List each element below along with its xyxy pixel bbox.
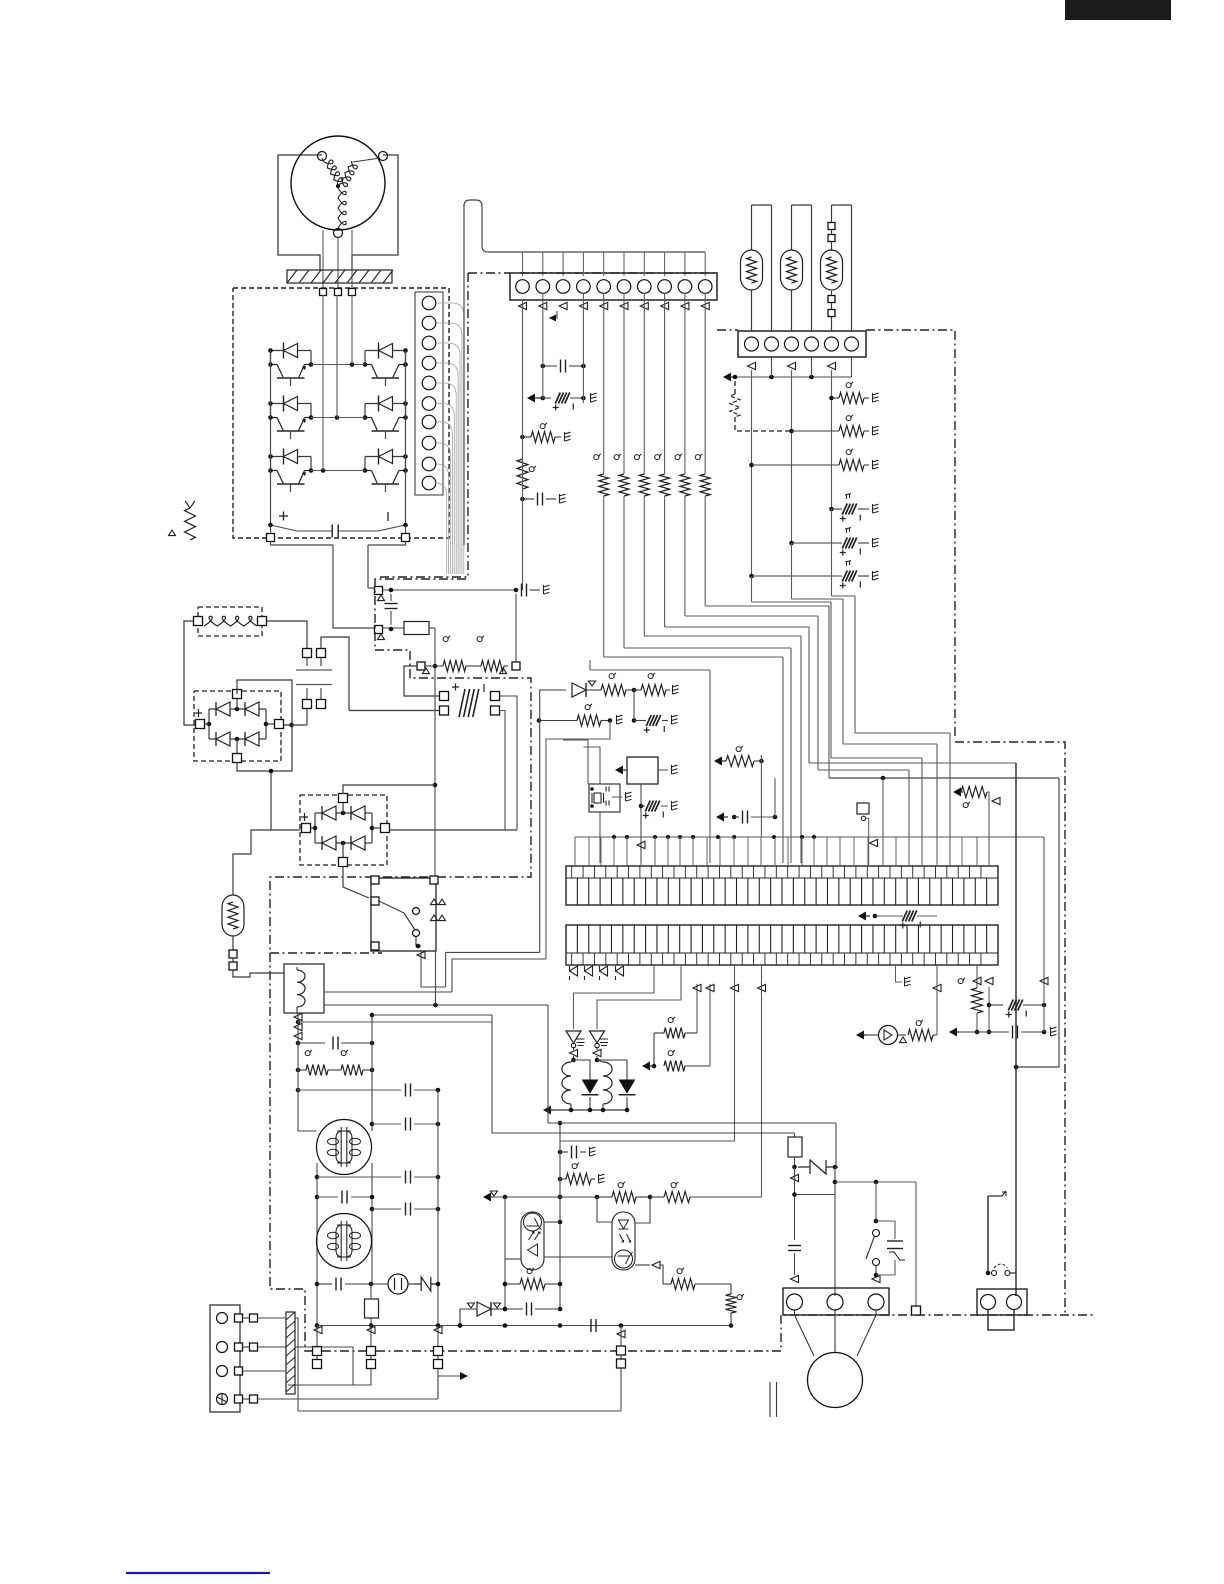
bus link upper bbox=[271, 541, 406, 628]
DC link capacitor C1 bbox=[268, 512, 408, 538]
compressor motor M frame bbox=[278, 155, 398, 270]
transformer T1 bbox=[317, 1120, 372, 1175]
board boundary dash-dot D1 bbox=[380, 273, 716, 577]
caps rail x438 bbox=[437, 1090, 439, 1325]
ecap C51 bbox=[641, 801, 678, 819]
varistor RV1 bbox=[730, 381, 794, 433]
pull resistor R11 bbox=[614, 293, 629, 496]
power relay RY1 bbox=[371, 876, 438, 951]
wire jog C bbox=[752, 576, 923, 863]
resistor R20 bbox=[829, 382, 878, 404]
resistor R55 bbox=[958, 965, 982, 1034]
smoothing capacitor C22 bbox=[440, 684, 500, 718]
crystal feed 1 bbox=[563, 740, 588, 784]
signal wire jog 2 bbox=[604, 496, 783, 863]
gray link x547 bbox=[546, 721, 610, 960]
capacitor C4 bbox=[520, 493, 565, 506]
electrolytic capacitor C3 bbox=[527, 393, 597, 411]
neutral rail wire bbox=[723, 357, 852, 382]
resistor R56 bbox=[953, 787, 1000, 864]
electrolytic capacitor C11 bbox=[789, 528, 878, 556]
bus hook wire bbox=[464, 200, 705, 545]
diode bridge DB2 bbox=[300, 794, 390, 867]
res R71 bbox=[503, 1268, 560, 1290]
shunt resistors R30 R31 bbox=[417, 661, 520, 674]
R54 body bbox=[642, 1050, 710, 1072]
shunt terminal square N bbox=[375, 626, 385, 640]
CN-D wires bbox=[307, 637, 349, 725]
line L2 wire bbox=[492, 1015, 795, 1133]
pull resistor R14 bbox=[675, 293, 690, 496]
wire jog A bbox=[832, 509, 951, 863]
capacitor C20 bbox=[516, 584, 550, 597]
label a2 bbox=[477, 636, 484, 642]
photocoupler PC1 bbox=[521, 1212, 544, 1270]
fuse F4 bbox=[788, 1133, 802, 1169]
capacitor C2 bbox=[541, 360, 586, 373]
DB2 feed wire bbox=[269, 769, 300, 830]
surge lamp H4 bbox=[222, 830, 284, 977]
RY1 pin marks bbox=[431, 899, 446, 921]
rail x505 bbox=[503, 1197, 508, 1311]
terminal connector CN-C bbox=[738, 331, 866, 357]
diode bridge DB1 bbox=[194, 690, 284, 763]
terminal pair T4 bbox=[617, 1326, 626, 1412]
neon lamp NE1 bbox=[371, 1274, 414, 1294]
AC rail wire bbox=[315, 1323, 734, 1328]
capacitor C34 bbox=[315, 1191, 375, 1204]
RY1 out wire bbox=[417, 951, 446, 987]
wire jog B bbox=[792, 543, 938, 863]
U1 lower wire bbox=[637, 784, 645, 863]
capacitor C36 bbox=[315, 1278, 374, 1291]
wire x590 upper bbox=[589, 660, 591, 670]
CN-C pin marks bbox=[748, 362, 836, 369]
cap C72 bbox=[788, 1246, 801, 1283]
diode D10 row bbox=[539, 673, 679, 697]
board boundary dash-dot E bbox=[717, 330, 1065, 1315]
inline splice bbox=[992, 1264, 1017, 1276]
right rail wire x372 bbox=[370, 1013, 492, 1131]
signal wire jog 3 bbox=[624, 496, 791, 863]
left rail wire bbox=[298, 1013, 317, 1131]
zener ZD1 bbox=[458, 1302, 508, 1328]
spare pin earth bbox=[896, 965, 911, 986]
crystal feed 2 bbox=[583, 747, 600, 784]
N bus wire bbox=[405, 351, 407, 526]
CN-E wires bbox=[243, 1318, 439, 1399]
PCB edge connector upper row bbox=[566, 866, 998, 905]
L1 left wire bbox=[184, 621, 195, 725]
thermistor TH1 bbox=[857, 803, 878, 866]
DB2 top wire bbox=[343, 785, 435, 794]
arrow out bbox=[438, 1372, 468, 1399]
signal wire jog 4 bbox=[644, 496, 801, 863]
bottom return wire bbox=[298, 1410, 621, 1412]
PCB edge connector lower row bbox=[566, 925, 998, 965]
driver feed 1 bbox=[574, 965, 655, 1029]
wire x989 bbox=[985, 977, 993, 1034]
signal wire jog 1 bbox=[590, 670, 710, 863]
gap components bbox=[858, 911, 937, 929]
CN-G lower loop bbox=[988, 1310, 1014, 1331]
line L1 wire bbox=[548, 1005, 836, 1123]
GD1 coil bbox=[562, 1060, 574, 1110]
DB2 right wire bbox=[390, 829, 518, 831]
outdoor loop wire bbox=[1014, 778, 1059, 1069]
choke coil L1 bbox=[194, 607, 267, 636]
PC1 wires bbox=[505, 1197, 612, 1259]
return arrow mark bbox=[549, 311, 557, 322]
heater/fuse H3 bbox=[821, 205, 852, 331]
resistor R50 row bbox=[537, 704, 623, 726]
wire W1 bbox=[522, 300, 524, 590]
connector feed rail bbox=[575, 835, 1044, 866]
wire x761 lower bbox=[758, 965, 766, 1197]
electrolytic capacitor C10 bbox=[829, 494, 878, 522]
resistor R3 bbox=[517, 459, 536, 489]
res R73 bbox=[726, 1294, 745, 1326]
sense line bbox=[298, 1021, 492, 1023]
R30 left link bbox=[404, 666, 440, 696]
fuse F3 bbox=[365, 1284, 379, 1325]
GD1 diode bbox=[574, 1060, 599, 1110]
page tab bbox=[1065, 0, 1171, 20]
edge bar wires bbox=[295, 1318, 353, 1411]
ecap C50 bbox=[632, 690, 678, 733]
driver feed 2 bbox=[597, 965, 681, 1029]
footer rule bbox=[126, 1572, 270, 1574]
heater/fuse H2 bbox=[781, 205, 812, 331]
phase node U wire bbox=[311, 362, 365, 367]
IGBT/diode pair Q3 bbox=[268, 396, 313, 440]
pull resistor R15 bbox=[695, 293, 710, 496]
wire x734 lower bbox=[560, 965, 739, 1141]
main board connector CN-B bbox=[510, 273, 717, 300]
wire W2 bbox=[542, 300, 544, 398]
PCB edge bar bbox=[286, 1312, 295, 1394]
motor M windings bbox=[291, 136, 388, 238]
res R72 bbox=[663, 1268, 731, 1294]
electrolytic capacitor C12 bbox=[749, 561, 878, 589]
fan line wire bbox=[835, 1180, 916, 1306]
T1 side wires bbox=[317, 1131, 373, 1325]
board terminal pair T3 bbox=[434, 1326, 443, 1369]
fuse F2 bbox=[404, 622, 435, 635]
motor wire W bbox=[322, 295, 324, 471]
phase wires down bbox=[752, 370, 832, 576]
fan connector CN-F bbox=[783, 1288, 889, 1315]
capacitor C37 bbox=[591, 1319, 596, 1332]
photocoupler PC2 bbox=[612, 1212, 635, 1270]
crystal X1 bbox=[589, 784, 632, 812]
PC2 wires bbox=[597, 1197, 663, 1284]
cap row C33 bbox=[315, 1171, 441, 1184]
resistor R52 bbox=[714, 746, 764, 837]
compressor supply wire bbox=[1015, 763, 1017, 1296]
CN-A wire bundle bbox=[435, 303, 464, 574]
IGBT/diode pair Q6 bbox=[363, 449, 408, 493]
DB1 loop wire bbox=[237, 680, 294, 771]
GD2 diode bbox=[597, 1060, 636, 1110]
R53 body bbox=[654, 1017, 697, 1066]
plug interface CN-D bbox=[296, 649, 332, 709]
terminal square T5 bbox=[912, 1306, 921, 1315]
inverter signal connector CN-A bbox=[415, 292, 443, 495]
R31 right link bbox=[515, 594, 517, 662]
sense wire bbox=[433, 628, 438, 880]
wire x1044 bbox=[1040, 837, 1048, 1032]
cap row C32 bbox=[372, 1118, 440, 1131]
cap C52 row bbox=[716, 778, 777, 824]
mains connector CN-E bbox=[210, 1305, 258, 1412]
pull resistor R12 bbox=[634, 293, 649, 496]
cap row C31 bbox=[296, 1084, 441, 1097]
cap C71 bbox=[505, 1303, 560, 1316]
relay coil RY1-L bbox=[284, 964, 324, 1013]
IGBT/diode pair Q4 bbox=[363, 396, 408, 440]
rail x560 bbox=[558, 1121, 563, 1312]
label a1 bbox=[443, 636, 450, 642]
fold marks bbox=[770, 1382, 777, 1417]
signal wire jog 5 bbox=[665, 496, 1016, 763]
driver return rail bbox=[543, 1106, 629, 1115]
gate driver GD2 bbox=[590, 1031, 609, 1062]
DB1 right wire bbox=[284, 724, 308, 726]
resistor pair R40 R41 bbox=[296, 1065, 375, 1076]
AC rail marks bbox=[314, 1326, 625, 1337]
heater/fuse H1 bbox=[741, 205, 772, 331]
pull resistor R10 bbox=[594, 293, 609, 496]
L1 right wire bbox=[267, 621, 308, 648]
board terminal pair T2 bbox=[367, 1326, 376, 1369]
signal wire jog 6 bbox=[685, 496, 909, 863]
gate driver GD1 bbox=[566, 1031, 585, 1062]
cap row C35 bbox=[370, 1203, 441, 1216]
IGBT/diode pair Q1 bbox=[268, 343, 313, 387]
res R70 bbox=[558, 1163, 605, 1185]
board boundary dash-dot D4 bbox=[270, 952, 382, 954]
phase node W wire bbox=[311, 468, 365, 473]
signal wire jog 7 bbox=[705, 496, 1059, 863]
motor terminal squares bbox=[320, 289, 356, 296]
N bus terminal square bbox=[402, 525, 410, 542]
thermistor R-TH bbox=[169, 501, 196, 540]
rail N wire bbox=[383, 627, 404, 632]
coil bottom wire bbox=[294, 1007, 302, 1043]
heat sink bar bbox=[287, 270, 393, 283]
wire W4 upper bbox=[582, 293, 584, 403]
relay drive wire bbox=[446, 951, 540, 953]
capacitor C21 bbox=[385, 594, 398, 625]
pull resistor R13 bbox=[655, 293, 670, 496]
board terminal pair T1 bbox=[313, 1326, 322, 1369]
wire W2 upper bbox=[542, 293, 544, 300]
P bus wire bbox=[270, 351, 272, 526]
transformer T2 bbox=[317, 1214, 372, 1269]
rail P wire bbox=[383, 588, 518, 593]
CN-B pin wires and marks bbox=[519, 252, 710, 310]
board boundary dash-dot D2 bbox=[270, 579, 1095, 1351]
thermal switch SW1 bbox=[866, 1182, 880, 1283]
IGBT/diode pair Q2 bbox=[363, 343, 408, 387]
P bus terminal square bbox=[267, 525, 275, 542]
run capacitor C73 bbox=[876, 1221, 905, 1275]
IGBT/diode pair Q5 bbox=[268, 449, 313, 493]
shunt terminal square P bbox=[375, 587, 385, 601]
compressor connector CN-G bbox=[977, 1289, 1027, 1315]
X1 lower wire bbox=[599, 812, 601, 863]
motor wire V bbox=[336, 295, 338, 418]
DB2 bottom wire bbox=[343, 866, 369, 898]
resistor R22 bbox=[749, 449, 878, 471]
gnd rail bbox=[949, 1026, 1057, 1039]
coil wires right bbox=[324, 951, 548, 1007]
relay contact wire bbox=[791, 1167, 838, 1296]
long wire x539 bbox=[539, 690, 541, 952]
capacitor C30 row bbox=[296, 1037, 375, 1056]
inverter module dashed outline bbox=[233, 288, 449, 538]
resistor R2 bbox=[520, 423, 570, 443]
surge absorber Z2 bbox=[798, 1123, 838, 1174]
ecap C60 bbox=[989, 1000, 1046, 1018]
indicator LED1 bbox=[856, 965, 941, 1045]
cap C70 bbox=[558, 1146, 596, 1159]
resistor R21 bbox=[792, 415, 879, 437]
C22 wires bbox=[349, 696, 517, 830]
connector out marks bbox=[570, 966, 624, 980]
motor wire U bbox=[351, 295, 353, 365]
GD2 coil bbox=[597, 1060, 612, 1110]
fan motor FM bbox=[795, 1310, 877, 1408]
vcc rail y1197 bbox=[483, 1182, 762, 1203]
crank heater wire bbox=[986, 1191, 1006, 1275]
surge absorber Z1 bbox=[414, 1277, 440, 1291]
IC U1 bbox=[615, 757, 678, 784]
resistor R53 bbox=[693, 984, 714, 1066]
motor lead wires bbox=[323, 230, 352, 288]
T2 terminal wires bbox=[288, 1369, 438, 1400]
phase node V wire bbox=[311, 415, 365, 420]
